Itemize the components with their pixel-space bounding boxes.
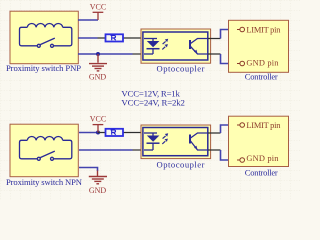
- junction at VCC stem (bottom): [96, 131, 100, 135]
- proximity switch NPN inner symbol: coil + switch: [20, 136, 72, 160]
- resistor R body (top): [106, 34, 124, 41]
- resistor R pins (bottom): [98, 132, 144, 134]
- optocoupler body (bottom): [141, 125, 211, 159]
- controller body (top): [229, 20, 289, 72]
- GND pin (bottom): [237, 158, 245, 163]
- light arrows (top): [162, 39, 168, 50]
- optocoupler body (top): [141, 29, 211, 63]
- power port VCC (top circuit): [93, 12, 104, 20]
- phototransistor (top): [190, 39, 208, 55]
- cathode pin (top): [133, 53, 145, 55]
- power port GND (top circuit): [89, 54, 107, 71]
- LED of optocoupler (top): [144, 39, 160, 55]
- wire collector to LIMIT pin (top): [221, 30, 238, 39]
- resistor R pins (top): [98, 37, 145, 39]
- wire box to optocoupler cathode (top): [78, 53, 133, 55]
- resistor R body (bottom): [106, 129, 124, 136]
- svg-text:LIMIT pin: LIMIT pin: [246, 121, 281, 130]
- optocoupler output pins (bottom): [208, 133, 221, 150]
- svg-text:GND pin: GND pin: [246, 154, 279, 163]
- wire box to VCC junction (bottom): [79, 132, 98, 134]
- wire emitter to GND pin (top): [221, 54, 238, 64]
- LIMIT pin (top): [237, 27, 245, 32]
- power port VCC (bottom circuit): [93, 125, 104, 133]
- junction at GND stem (top): [96, 52, 100, 56]
- LED of optocoupler (bottom): [144, 133, 160, 150]
- wire box to resistor (top): [78, 37, 98, 39]
- svg-text:VCC: VCC: [90, 2, 106, 11]
- svg-text:Proximity switch NPN: Proximity switch NPN: [6, 177, 83, 187]
- proximity switch PNP body: [10, 11, 78, 64]
- svg-text:Optocoupler: Optocoupler: [157, 159, 205, 169]
- optocoupler output pins (top): [208, 39, 221, 55]
- wire box to GND (bottom): [79, 168, 98, 172]
- GND pin (top): [237, 61, 245, 66]
- LIMIT pin (bottom): [237, 123, 245, 128]
- cathode pin (bottom): [133, 149, 145, 151]
- controller body (bottom): [229, 116, 289, 166]
- power port GND (bottom circuit): [89, 171, 107, 184]
- wire box to optocoupler cathode (bottom): [79, 149, 133, 151]
- wire collector to LIMIT pin (bottom): [221, 125, 238, 133]
- svg-text:Controller: Controller: [245, 72, 278, 82]
- svg-text:Proximity switch PNP: Proximity switch PNP: [6, 63, 81, 73]
- light arrows (bottom): [162, 133, 168, 144]
- phototransistor (bottom): [190, 133, 208, 150]
- wire box to VCC (top): [78, 19, 98, 21]
- svg-text:LIMIT pin: LIMIT pin: [246, 26, 281, 35]
- svg-text:VCC: VCC: [90, 115, 106, 124]
- proximity switch NPN body: [10, 124, 78, 177]
- svg-text:GND: GND: [89, 186, 107, 195]
- svg-text:GND pin: GND pin: [246, 58, 279, 67]
- wire emitter to GND pin (bottom): [221, 150, 238, 160]
- svg-text:Controller: Controller: [245, 167, 278, 177]
- proximity switch PNP inner symbol: coil + switch: [20, 23, 72, 47]
- svg-text:GND: GND: [89, 72, 107, 81]
- sheet background: [0, 0, 300, 200]
- svg-text:VCC=24V, R=2k2: VCC=24V, R=2k2: [121, 98, 184, 108]
- svg-text:Optocoupler: Optocoupler: [157, 63, 205, 73]
